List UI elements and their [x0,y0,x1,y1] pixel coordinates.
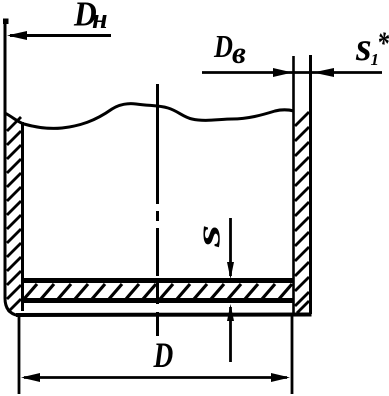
dimension s lower line with up arrow [229,307,232,362]
svg-text:н: н [92,4,108,35]
bottom plate hatching [24,284,292,299]
right wall outer edge (extends up as extension line for s1) [309,55,312,314]
svg-text:s: s [190,225,227,249]
right wall inner edge (extends up as extension line for Dв) [292,56,295,314]
extension line left for D [18,313,21,394]
svg-text:D: D [213,30,233,65]
wavy break line at top [5,104,294,129]
bottom edge line of shell rim [16,313,312,318]
left wall inner edge [21,122,24,311]
dimension line s1* [313,71,382,74]
arrowhead Dв [273,68,293,77]
arrowhead Dн [7,31,27,40]
svg-text:*: * [377,26,389,61]
left wall outer edge (also extension line for Dн) [5,19,18,316]
dimension line Dв [202,71,313,74]
dimension line D [24,376,287,379]
dimension line Dн [10,34,111,37]
tick at top of Dн extension line [3,19,9,25]
svg-text:D: D [153,335,174,374]
bottom plate top edge [21,278,294,283]
centerline (axis) [156,84,159,336]
dimension s upper line with down arrow [229,218,232,276]
arrowhead D right [271,373,290,382]
left wall hatching [7,117,21,312]
extension line right for D [291,316,294,394]
arrowhead D left [21,373,40,382]
svg-text:s: s [355,24,372,69]
arrowhead s1* [313,68,334,77]
right wall hatching [295,112,309,313]
bottom plate bottom edge [21,298,294,303]
svg-text:в: в [232,35,246,70]
